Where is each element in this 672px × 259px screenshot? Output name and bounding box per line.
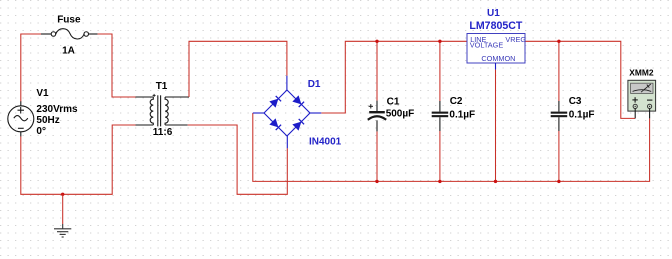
wire bridge right up to positive rail into U1 (321, 41, 467, 113)
fuse Fuse 1A (41, 29, 98, 39)
wire junction to ground (62, 194, 64, 224)
svg-text:COMMON: COMMON (481, 54, 515, 63)
svg-text:XMM2: XMM2 (629, 67, 654, 77)
svg-text:U1: U1 (487, 8, 500, 19)
svg-text:D1: D1 (308, 79, 321, 90)
node top rail C3 (557, 40, 560, 43)
svg-text:VOLTAGE: VOLTAGE (470, 41, 504, 50)
capacitor C2 (432, 101, 449, 131)
diode D1 bottom-left (269, 118, 281, 130)
capacitor C1 (368, 101, 386, 132)
node bottom rail C3 (557, 180, 560, 183)
svg-text:0°: 0° (36, 126, 46, 137)
transformer T1 (136, 94, 190, 127)
node bottom rail C2 (438, 180, 441, 183)
svg-text:C1: C1 (387, 97, 400, 108)
svg-text:V1: V1 (36, 88, 49, 99)
svg-text:230Vrms: 230Vrms (36, 104, 78, 115)
svg-text:0.1µF: 0.1µF (449, 109, 475, 120)
AC source V1 (8, 101, 34, 136)
svg-text:50Hz: 50Hz (36, 115, 59, 126)
svg-text:0.1µF: 0.1µF (569, 109, 595, 120)
wire fuse to T1 primary top (98, 34, 136, 97)
capacitor C3 (551, 101, 568, 131)
diode D1 top-right (292, 95, 304, 107)
diode D1 top-left (269, 95, 281, 107)
svg-text:VREG: VREG (505, 35, 526, 44)
wire top rail to C3 (558, 41, 560, 101)
svg-text:11:6: 11:6 (153, 127, 173, 138)
node bottom rail U1 common (494, 180, 497, 183)
voltage regulator U1 box (467, 34, 525, 70)
wire top rail to C1 (376, 41, 378, 100)
svg-text:T1: T1 (156, 81, 168, 92)
ground (54, 224, 71, 237)
node ground junction (61, 193, 64, 196)
diode D1 bottom-right (292, 118, 304, 130)
wire T1 secondary bottom to bridge bottom (188, 125, 288, 194)
wire U1 common to ground rail (495, 70, 497, 182)
node top rail C1 (375, 40, 378, 43)
svg-text:500µF: 500µF (386, 109, 415, 120)
wire C1 to bottom rail (376, 131, 378, 181)
svg-text:Fuse: Fuse (57, 15, 81, 26)
wire top rail to C2 (439, 41, 441, 101)
wire C3 to bottom rail (558, 131, 560, 181)
svg-text:C3: C3 (569, 96, 582, 107)
multimeter XMM2 (628, 80, 656, 118)
node top rail C2 (438, 40, 441, 43)
wire bridge left to ground rail to XMM2 minus (253, 113, 650, 181)
diode bridge D1 diamond and stubs (253, 76, 321, 149)
wire U1 output rail to XMM2 plus (524, 41, 635, 118)
svg-text:LM7805CT: LM7805CT (469, 20, 523, 32)
wire V1 top to fuse (21, 34, 41, 102)
wire C2 to bottom rail (439, 131, 441, 181)
svg-text:C2: C2 (450, 96, 463, 107)
svg-text:1A: 1A (62, 45, 75, 56)
svg-text:IN4001: IN4001 (309, 137, 342, 148)
wire T1 secondary top to bridge top (189, 41, 287, 97)
node bottom rail C1 (375, 180, 378, 183)
wire T1 primary bottom to V1 bottom, via ground node (21, 125, 136, 194)
